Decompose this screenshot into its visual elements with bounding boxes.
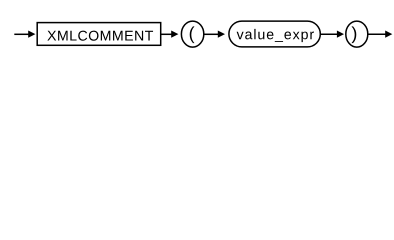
terminal circle ( (181, 21, 203, 47)
arrowhead exit (385, 31, 392, 38)
wire entry line (14, 33, 28, 35)
wire box to lparen (161, 33, 172, 35)
wire lparen to value_expr (204, 33, 219, 35)
label value_expr (237, 29, 314, 42)
arrowhead entry (28, 31, 35, 38)
arrowhead before rparen (337, 31, 344, 38)
arrowhead before lparen (171, 31, 178, 38)
label XMLCOMMENT (47, 31, 153, 41)
background (0, 0, 394, 58)
wire exit line (367, 33, 386, 35)
keyword box XMLCOMMENT (37, 23, 161, 46)
terminal circle ) (346, 21, 368, 47)
label ( (190, 26, 195, 43)
label ) (352, 26, 357, 43)
placeholder oval value_expr (229, 21, 320, 47)
wire value_expr to rparen (320, 33, 337, 35)
railroad syntax diagram: XMLCOMMENT ( value_expr ) (0, 0, 394, 58)
arrowhead before value_expr (218, 31, 225, 38)
